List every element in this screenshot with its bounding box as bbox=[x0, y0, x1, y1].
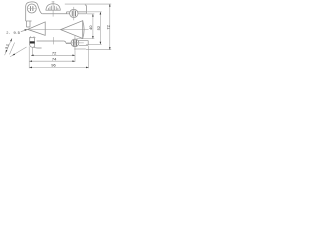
arrow dim72 left bbox=[31, 55, 34, 57]
top plate line (left portion) bbox=[42, 13, 66, 15]
cone 2 bbox=[61, 21, 83, 39]
dimension vertical V3 bbox=[109, 4, 111, 50]
arrow V3 bottom bbox=[109, 47, 111, 50]
dome centerline vertical with top tick bbox=[52, 1, 54, 17]
arrow leader 9.5 bbox=[25, 29, 28, 31]
arrow steep diagonal top bbox=[10, 39, 12, 42]
curl tab nubs bbox=[31, 36, 35, 37]
plate double lines right portion (broken at circle B) bbox=[67, 11, 87, 13]
knob centerline in lower view bbox=[52, 37, 54, 44]
arrow dim72 right bbox=[72, 55, 75, 57]
arrow dim74 left bbox=[29, 60, 32, 62]
svg-text:72: 72 bbox=[105, 24, 110, 29]
circle C horizontal centerline bbox=[67, 42, 84, 44]
left curl tab verticals bbox=[30, 38, 35, 45]
lower view top line bbox=[37, 40, 64, 42]
shallow diagonal dimension line bbox=[10, 47, 27, 57]
cone 1 bbox=[28, 22, 46, 36]
svg-text:74: 74 bbox=[52, 56, 57, 61]
svg-text:2-: 2- bbox=[6, 31, 10, 35]
right extension line upper plate level bbox=[87, 11, 101, 13]
arrow V1 bottom bbox=[92, 36, 94, 39]
arrow steep diagonal bottom bbox=[6, 50, 8, 53]
bottom dimension line 96 bbox=[29, 66, 88, 68]
left rounded tab outline bbox=[26, 2, 38, 21]
curl to bottom line bbox=[34, 46, 42, 49]
svg-text:52: 52 bbox=[96, 25, 101, 30]
tab right bend curve down to plate bbox=[38, 5, 43, 14]
arrow shallow diagonal bbox=[12, 54, 15, 56]
bottom dimension line 72 bbox=[31, 54, 75, 56]
arrow V3 top bbox=[109, 4, 111, 7]
bottom dimension line 74 bbox=[29, 60, 75, 62]
tab bottom step bbox=[26, 20, 32, 22]
bottom extension vertical under stud center bbox=[74, 51, 76, 62]
circle B vertical centerline bbox=[73, 7, 75, 20]
upturned lip at right end bbox=[85, 5, 87, 14]
step up at plate bbox=[66, 12, 68, 14]
arrow V1 top bbox=[92, 14, 94, 17]
dome knob flange line bbox=[46, 9, 61, 11]
arrow V2 top bbox=[100, 12, 102, 15]
curl bottom arc bbox=[29, 44, 34, 47]
dimension vertical V2 bbox=[99, 12, 101, 44]
dimension vertical V1 bbox=[92, 14, 94, 39]
circle A centerline ticks bbox=[27, 8, 37, 10]
bottom-left extension vertical (outer) bbox=[28, 46, 30, 68]
dark pin band in curl tab bbox=[30, 41, 35, 43]
lower view bottom right line bbox=[74, 48, 86, 50]
circle B hatch marks bbox=[72, 10, 75, 17]
arrowheads bbox=[6, 4, 111, 68]
svg-text:40: 40 bbox=[88, 25, 93, 30]
right extension line plate bottom level bbox=[87, 13, 94, 15]
right extension line lower-view top level bbox=[77, 38, 95, 40]
right extension line part bottom level bbox=[86, 49, 111, 51]
svg-text:96: 96 bbox=[51, 63, 56, 68]
bottom extension vertical at right end bbox=[87, 46, 89, 68]
arrow V2 bottom bbox=[100, 42, 102, 45]
circle A (hole in tab) bbox=[27, 4, 36, 13]
circle C hatch marks bbox=[73, 39, 76, 46]
circle B (hatched hole on plate) bbox=[70, 9, 78, 17]
dome knob arc bbox=[46, 4, 60, 10]
lower view right tab lines bbox=[78, 41, 88, 46]
arrow dim96 right bbox=[86, 67, 89, 69]
right extension line lower tab bottom level bbox=[86, 43, 102, 45]
lower view dip into stud bbox=[64, 41, 71, 44]
svg-text:72: 72 bbox=[52, 51, 57, 56]
right extension line at dome apex level bbox=[65, 3, 111, 5]
background bbox=[0, 0, 120, 75]
leader line for 9.5 label bbox=[21, 30, 27, 32]
circle C vertical centerline bbox=[74, 36, 76, 51]
arrow dim74 right bbox=[72, 60, 75, 62]
main horizontal centerline bbox=[24, 29, 88, 31]
small strip below tab bbox=[26, 21, 30, 27]
circle A hatch marks bbox=[31, 6, 33, 11]
arrow dim96 left bbox=[29, 67, 32, 69]
text labels bbox=[4, 24, 110, 67]
steep diagonal extension line short bbox=[10, 43, 15, 55]
dome hatch lines bbox=[48, 6, 58, 10]
steep diagonal extension line bbox=[5, 38, 12, 55]
circle C (stud) bbox=[71, 39, 79, 47]
left curl tab top line bbox=[29, 37, 35, 39]
bottom-left extension vertical (inner) bbox=[32, 48, 34, 56]
svg-text:9.5: 9.5 bbox=[14, 30, 21, 35]
cone 2 spherical base arc bbox=[83, 21, 84, 39]
